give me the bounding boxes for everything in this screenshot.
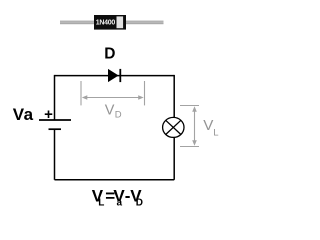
wire left lower	[54, 130, 56, 180]
wire right upper	[173, 75, 175, 119]
battery plus plate (long)	[39, 119, 71, 121]
VL measure top tick	[180, 105, 199, 107]
VD measure right tick	[144, 81, 146, 105]
lamp X stroke 2	[166, 120, 181, 134]
wire top	[55, 75, 175, 77]
lamp circle	[163, 117, 184, 137]
diode D symbol triangle	[108, 69, 119, 82]
svg-text:L: L	[98, 198, 104, 209]
VD arrowhead left	[82, 95, 88, 100]
VL measure arrow line	[194, 108, 196, 144]
svg-text:D: D	[104, 45, 115, 62]
VD arrowhead right	[138, 95, 144, 100]
svg-text:V: V	[105, 103, 115, 119]
diode photo left lead	[60, 21, 95, 25]
svg-text:D: D	[136, 198, 143, 209]
battery minus plate (short)	[49, 128, 62, 130]
diode photo right lead	[125, 21, 164, 25]
lamp X stroke 1	[166, 120, 181, 134]
VL arrowhead up	[192, 106, 197, 112]
svg-text:Va: Va	[13, 105, 34, 124]
VL arrowhead down	[192, 140, 197, 146]
wire left upper	[54, 75, 56, 120]
wire bottom	[55, 179, 175, 181]
diode photo body 1N4007	[94, 15, 126, 30]
svg-text:1N400: 1N400	[96, 20, 116, 27]
VL measure bottom tick	[180, 146, 199, 148]
VD measure left tick	[80, 81, 82, 105]
diode photo cathode band	[117, 16, 124, 28]
wire right lower	[173, 137, 175, 180]
svg-text:L: L	[213, 128, 218, 139]
diode D cathode bar	[119, 69, 121, 82]
svg-text:a: a	[117, 198, 123, 209]
svg-text:+: +	[44, 106, 53, 123]
VD measure arrow line	[84, 97, 142, 99]
svg-text:D: D	[115, 109, 122, 120]
